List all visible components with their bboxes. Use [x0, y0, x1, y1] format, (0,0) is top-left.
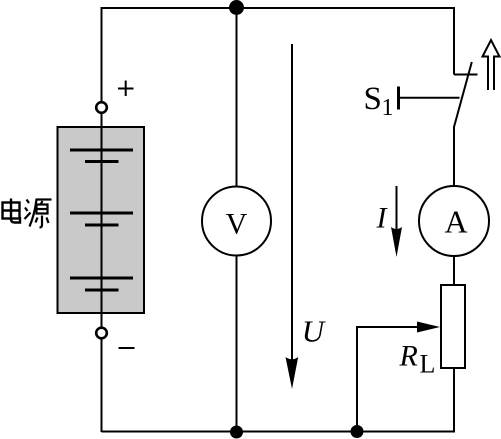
wire from battery box to - terminal — [101, 313, 103, 328]
battery negative terminal circle — [96, 328, 107, 339]
plus sign label — [118, 81, 134, 97]
label RL — [399, 340, 436, 379]
arrow U (voltage direction arrow) — [286, 44, 299, 389]
rheostat RL body — [441, 285, 465, 368]
wire left vertical (top wire to battery + terminal) — [101, 7, 103, 103]
wire S1 tick to blade — [399, 97, 460, 99]
junction dot bottom right (wiper return) — [351, 425, 364, 438]
wire bottom horizontal — [102, 431, 456, 433]
rheostat wiper arrow — [357, 322, 440, 333]
minus sign label — [119, 347, 135, 349]
voltmeter V1 circle — [202, 187, 271, 256]
junction dot bottom left (voltmeter return) — [230, 426, 243, 439]
battery internal wire — [101, 127, 103, 313]
svg-text:U: U — [302, 314, 327, 349]
hollow arrow (switch actuation) — [483, 40, 500, 90]
wire rheostat bottom to bottom wire — [453, 368, 455, 432]
battery cell 2 short plate — [85, 224, 119, 227]
label S1 — [364, 81, 394, 121]
battery cell 1 short plate — [85, 160, 119, 163]
wire switch to ammeter — [453, 126, 455, 187]
switch S1 fixed contact horizontal — [454, 74, 478, 76]
switch S1 blade — [454, 62, 472, 127]
svg-text:1: 1 — [382, 95, 394, 121]
wire right vertical from top wire to switch — [453, 7, 455, 75]
switch S1 pole tick — [397, 87, 400, 110]
battery cell 1 long plate — [70, 149, 133, 152]
junction dot top (node at voltmeter tap) — [229, 0, 244, 15]
wire ammeter to rheostat — [453, 256, 455, 287]
battery positive terminal circle — [96, 102, 107, 113]
svg-text:A: A — [444, 204, 467, 240]
battery BT1 (电源) box — [58, 127, 145, 313]
wire wiper down to bottom wire — [356, 326, 358, 432]
label 源 (power source text, drawn as strokes) — [25, 200, 52, 228]
battery cell 3 short plate — [85, 289, 119, 292]
wire from + terminal to battery box — [101, 113, 103, 129]
wire left vertical bottom (- terminal to bottom wire) — [101, 338, 103, 432]
svg-text:V: V — [226, 208, 248, 241]
wire voltmeter top (junction to V) — [236, 7, 238, 187]
battery cell 3 long plate — [70, 277, 133, 280]
wire top horizontal — [102, 7, 455, 9]
svg-text:L: L — [420, 350, 436, 379]
wire voltmeter bottom (V to bottom junction) — [236, 256, 238, 433]
svg-text:R: R — [399, 340, 418, 373]
ammeter A1 circle — [419, 186, 489, 256]
svg-text:S: S — [364, 81, 382, 117]
arrow I (current direction arrow) — [391, 186, 402, 257]
battery cell 2 long plate — [70, 212, 133, 215]
svg-text:I: I — [376, 202, 389, 235]
label 电 (power source text, drawn as strokes) — [3, 199, 21, 223]
